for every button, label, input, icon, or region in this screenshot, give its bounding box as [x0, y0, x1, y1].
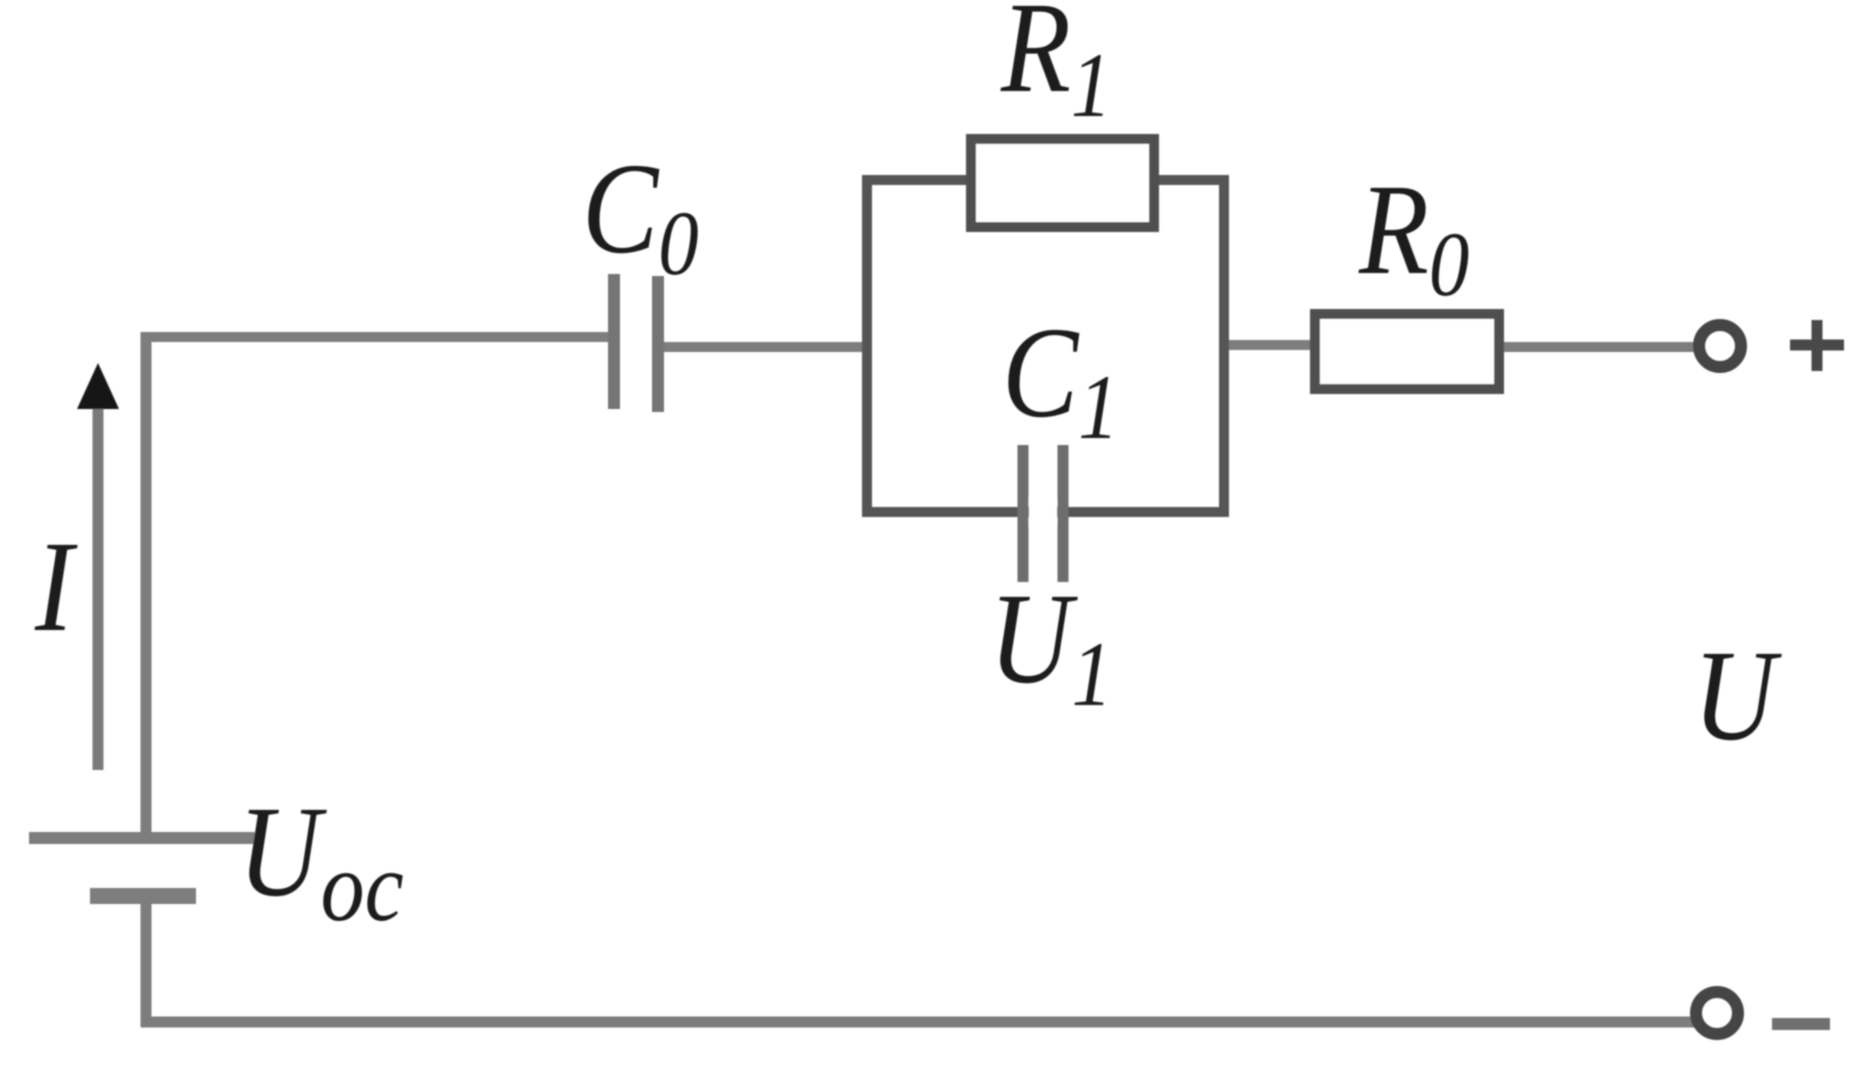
plus sign — [1790, 320, 1844, 371]
terminal plus circle — [1699, 325, 1741, 367]
label U1 — [989, 567, 1112, 725]
label R1 — [1000, 0, 1111, 136]
svg-text:I: I — [34, 515, 78, 658]
capacitor C1 right plate — [1058, 445, 1069, 582]
wire C0 to RC box — [664, 342, 872, 352]
wire top horizontal (battery top node to C0) — [141, 332, 609, 342]
label R0 — [1358, 158, 1469, 315]
svg-text:R1: R1 — [1000, 0, 1111, 136]
minus sign — [1772, 1018, 1830, 1030]
wire box to R0 — [1229, 340, 1312, 350]
gap in box bottom wire for C1 — [1029, 498, 1057, 526]
svg-text:Uoc: Uoc — [238, 780, 404, 942]
battery U_oc short plate — [90, 888, 196, 904]
wire R0 to plus terminal — [1504, 342, 1697, 352]
label U — [1693, 624, 1783, 767]
capacitor C1 left plate — [1018, 445, 1029, 582]
resistor R0 — [1315, 314, 1499, 389]
svg-text:R0: R0 — [1358, 158, 1469, 315]
svg-text:C0: C0 — [582, 137, 699, 294]
label C1 — [1002, 301, 1119, 458]
label U_oc — [238, 780, 404, 942]
svg-text:C1: C1 — [1002, 301, 1119, 458]
battery U_oc long plate — [29, 832, 255, 844]
terminal minus circle — [1696, 992, 1738, 1034]
wire left vertical (top node down to battery plus plate) — [141, 332, 152, 840]
capacitor C0 right plate — [652, 276, 664, 412]
wire bottom horizontal (battery to minus terminal) — [141, 1017, 1695, 1028]
svg-text:U: U — [1693, 624, 1783, 767]
capacitor C0 left plate — [608, 274, 620, 409]
current arrow I head — [77, 363, 119, 409]
current arrow I line — [93, 402, 104, 770]
svg-text:U1: U1 — [989, 567, 1112, 725]
label I — [34, 515, 78, 658]
resistor R1 — [971, 139, 1154, 227]
wire left vertical (battery minus plate down to bottom wire) — [141, 896, 152, 1027]
node box: parallel R1 C1 loop wire — [867, 180, 1224, 512]
label C0 — [582, 137, 699, 294]
